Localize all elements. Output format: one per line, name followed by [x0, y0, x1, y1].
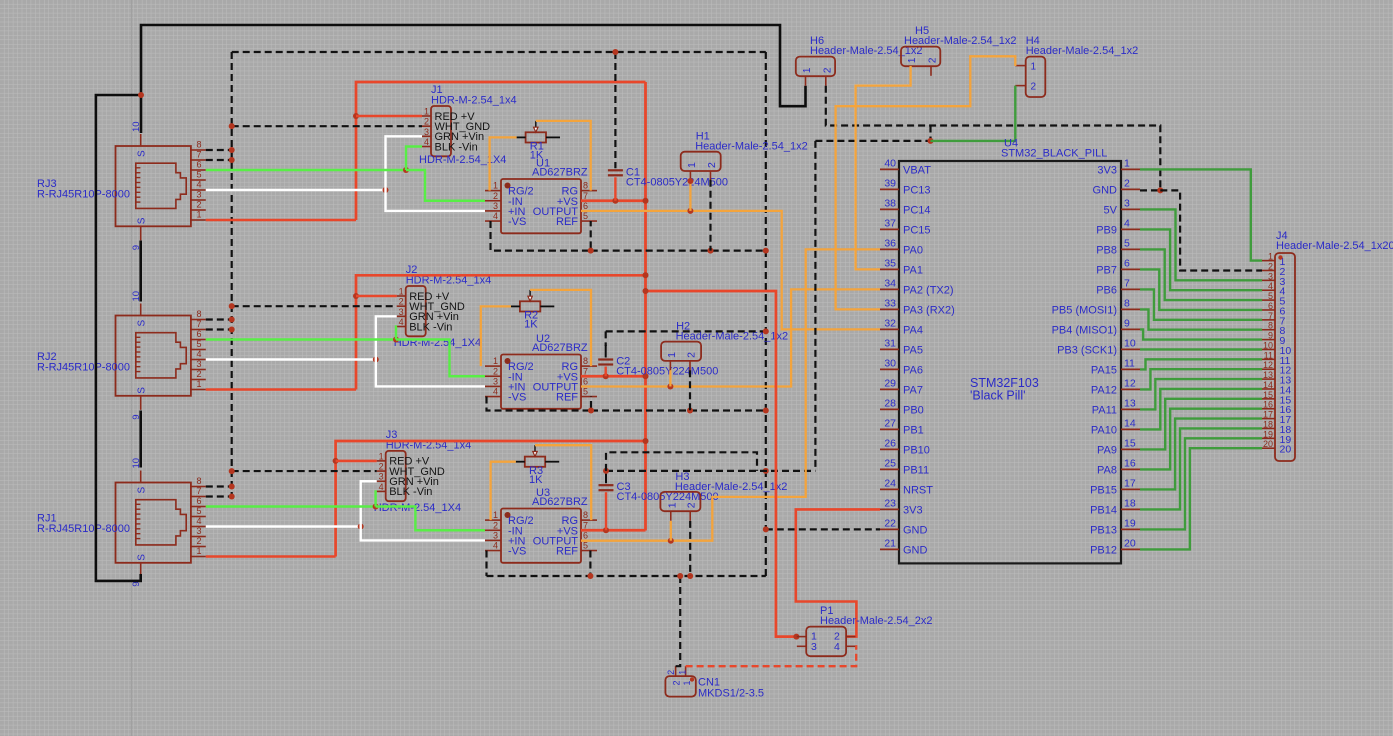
svg-text:5: 5	[583, 211, 588, 221]
header P1 Header-Male-2.54_2x2	[797, 605, 933, 656]
wire green PA15 to J4.11	[1140, 359, 1262, 369]
svg-text:4: 4	[379, 482, 384, 492]
junction red bus ch2	[643, 272, 649, 379]
svg-text:3: 3	[196, 526, 201, 536]
svg-text:9: 9	[1124, 317, 1130, 329]
svg-text:PA7: PA7	[903, 384, 923, 396]
svg-text:4: 4	[1124, 217, 1130, 229]
svg-text:STM32_BLACK_PILL: STM32_BLACK_PILL	[1001, 148, 1107, 160]
svg-text:7: 7	[583, 191, 588, 201]
wire GND dashed REF rail ch2	[591, 409, 766, 411]
wire orange H2 pin1 drop	[669, 370, 671, 386]
wire red to J1 pin1	[356, 115, 422, 118]
svg-text:1: 1	[424, 107, 429, 117]
wire white RJ pin4 ch2	[206, 358, 376, 360]
svg-text:PA9: PA9	[1097, 444, 1117, 456]
svg-text:3V3: 3V3	[1097, 164, 1117, 176]
svg-text:REF: REF	[556, 392, 578, 404]
wire orange OUTPUT1 to PA4	[581, 211, 880, 330]
wire GND dashed C2 rail	[606, 328, 769, 357]
wire GND dashed left bus	[231, 52, 233, 497]
svg-text:18: 18	[1263, 419, 1273, 429]
resistor R3 1K	[516, 445, 559, 486]
svg-text:1: 1	[1031, 62, 1037, 73]
wire orange H4 pin1 to PA3	[836, 56, 1016, 309]
svg-text:1: 1	[666, 502, 678, 508]
wire white ch1 to J1.3 / U1.+IN	[386, 136, 486, 211]
svg-text:PA11: PA11	[1092, 404, 1117, 416]
junction red P1 pin1	[793, 634, 799, 640]
resistor R1 1K	[517, 121, 560, 162]
svg-text:10: 10	[1124, 337, 1136, 349]
wire green PA10 to J4.14	[1140, 389, 1262, 429]
svg-text:BLK -Vin: BLK -Vin	[389, 486, 432, 498]
svg-text:5: 5	[583, 387, 588, 397]
svg-text:33: 33	[884, 297, 896, 309]
svg-text:15: 15	[1124, 437, 1136, 449]
wire GND dashed RJ1 pin8	[206, 484, 235, 490]
wire GND dashed U2 -VS/REF	[487, 397, 592, 411]
svg-text:3: 3	[811, 641, 817, 653]
svg-text:PA4: PA4	[903, 324, 923, 336]
svg-text:5: 5	[196, 169, 201, 179]
svg-text:8: 8	[1124, 297, 1130, 309]
wire red riser+rail ch1	[356, 82, 646, 220]
svg-text:3: 3	[1124, 197, 1130, 209]
svg-text:2: 2	[666, 670, 676, 675]
wire red C2 to +VS	[605, 367, 607, 377]
svg-text:2: 2	[424, 117, 429, 127]
svg-text:CT4-0805Y224M500: CT4-0805Y224M500	[617, 491, 719, 503]
svg-text:8: 8	[583, 181, 588, 191]
wire GND dashed U3 REF drop	[589, 551, 591, 576]
wire red C1 to +VS	[614, 177, 616, 200]
svg-text:40: 40	[884, 157, 896, 169]
wire lime RJ pin6 ch3	[206, 505, 376, 507]
wire orange OUTPUT2 to PA2	[581, 289, 880, 386]
svg-text:9: 9	[1268, 331, 1273, 341]
svg-text:2: 2	[399, 297, 404, 307]
wire green PA12 to J4.12	[1140, 369, 1262, 389]
svg-text:26: 26	[884, 437, 896, 449]
svg-text:6: 6	[1124, 257, 1130, 269]
wire green PB8 to J4.5	[1140, 249, 1262, 300]
svg-text:PB13: PB13	[1090, 524, 1117, 536]
wire red bus to P1 pin1	[646, 291, 797, 637]
wire black RJ2-RJ1 shield	[139, 411, 142, 468]
svg-text:PB15: PB15	[1090, 484, 1117, 496]
wire GND dashed mid rail	[815, 126, 933, 144]
wire green PB12 to J4.20	[1140, 448, 1262, 549]
wire lime RJ pin6 ch2	[206, 338, 396, 340]
svg-text:1: 1	[802, 67, 813, 73]
wire GND dashed H3 pin2	[689, 521, 691, 576]
svg-text:21: 21	[884, 537, 896, 549]
svg-text:13: 13	[1124, 397, 1136, 409]
wire lime ch3 to U3.-IN	[376, 507, 485, 531]
capacitor C3 CT4-0805Y224M500	[599, 481, 719, 503]
svg-text:1: 1	[493, 181, 498, 191]
svg-text:PA5: PA5	[903, 344, 923, 356]
svg-text:R-RJ45R10P-8000: R-RJ45R10P-8000	[37, 523, 130, 535]
wire green PB5 (MOSI1) to J4.8	[1140, 309, 1262, 329]
wire red RJ pin1 ch3	[206, 555, 336, 558]
wire green PB13 to J4.19	[1140, 438, 1262, 529]
svg-text:VBAT: VBAT	[903, 164, 931, 176]
wire green PB6 to J4.7	[1140, 289, 1262, 319]
svg-text:2: 2	[686, 502, 698, 508]
junction orange H1	[687, 208, 693, 214]
svg-text:MKDS1/2-3.5: MKDS1/2-3.5	[698, 688, 764, 700]
wire lime ch2 to J2.4	[395, 327, 398, 340]
svg-text:PB3 (SCK1): PB3 (SCK1)	[1057, 344, 1117, 356]
svg-text:PA8: PA8	[1097, 464, 1117, 476]
svg-text:3: 3	[399, 307, 404, 317]
svg-text:8: 8	[583, 510, 588, 520]
svg-text:4: 4	[493, 211, 498, 221]
wire red +VS U2	[581, 375, 646, 378]
wire GND dashed H1 pin2	[709, 180, 711, 251]
svg-text:S: S	[137, 387, 148, 394]
svg-text:PA6: PA6	[903, 364, 923, 376]
svg-text:8: 8	[583, 356, 588, 366]
wire GND dashed long drop	[814, 141, 816, 471]
svg-text:1: 1	[379, 451, 384, 461]
header J1 HDR-M-2.54_1x4	[419, 84, 517, 166]
wire GND dashed to J4 pin2	[1160, 190, 1262, 270]
svg-text:R-RJ45R10P-8000: R-RJ45R10P-8000	[37, 189, 130, 201]
wire red 3V3 to P1 pin2	[796, 509, 880, 636]
IC U4 STM32_BLACK_PILL	[880, 137, 1140, 563]
svg-text:31: 31	[884, 337, 896, 349]
svg-text:-VS: -VS	[508, 546, 526, 558]
svg-text:7: 7	[583, 366, 588, 376]
header H3 Header-Male-2.54_1x2	[660, 471, 787, 521]
wire white ch2 to J2.3 / U2.+IN	[376, 316, 485, 386]
wire GND dashed C1 lead	[612, 49, 618, 168]
svg-text:1K: 1K	[530, 150, 544, 162]
svg-text:1: 1	[1124, 157, 1130, 169]
svg-text:5: 5	[1124, 237, 1130, 249]
wire green PA8 to J4.16	[1140, 409, 1262, 470]
svg-text:PB10: PB10	[903, 444, 930, 456]
wire green PA9 to J4.15	[1140, 399, 1262, 450]
svg-text:3: 3	[196, 359, 201, 369]
svg-text:7: 7	[196, 486, 201, 496]
junction red J2 pin1	[353, 293, 359, 299]
svg-text:1: 1	[493, 510, 498, 520]
wire GND dashed to J1 pin2	[229, 123, 422, 129]
svg-text:4: 4	[1268, 281, 1273, 291]
svg-text:1: 1	[196, 546, 201, 556]
svg-text:6: 6	[583, 201, 588, 211]
svg-text:1: 1	[907, 57, 918, 63]
svg-text:PB6: PB6	[1096, 284, 1117, 296]
header H5 Header-Male-2.54_1x2	[901, 25, 1017, 76]
junction GND REF ch3	[587, 468, 768, 579]
svg-text:7: 7	[196, 319, 201, 329]
wire white RJ pin4 ch3	[206, 525, 361, 527]
svg-text:PA15: PA15	[1091, 364, 1117, 376]
svg-text:PB8: PB8	[1096, 244, 1117, 256]
svg-text:1: 1	[686, 162, 698, 168]
svg-text:8: 8	[1268, 321, 1273, 331]
svg-text:REF: REF	[556, 546, 578, 558]
svg-text:9: 9	[131, 582, 142, 587]
header H6 Header-Male-2.54_1x2	[796, 35, 923, 86]
wire red main bus vertical	[644, 82, 647, 531]
wire red riser+rail ch3	[336, 441, 646, 557]
svg-text:25: 25	[884, 457, 896, 469]
svg-text:PA2 (TX2): PA2 (TX2)	[903, 284, 954, 296]
svg-text:13: 13	[1263, 370, 1273, 380]
wire GND dashed right bus	[765, 52, 767, 576]
svg-text:29: 29	[884, 377, 896, 389]
svg-text:2: 2	[379, 462, 384, 472]
wire orange R3 wiper to U3 RG	[535, 445, 591, 520]
wire GND dashed bottom rail	[487, 575, 766, 577]
wire GND dashed H2 pin2	[689, 370, 691, 410]
svg-text:REF: REF	[556, 216, 578, 228]
svg-text:AD627BRZ: AD627BRZ	[532, 342, 588, 354]
wire white ch3 to J3.3 / U3.+IN	[361, 481, 485, 540]
junction red J3 pin1	[333, 458, 339, 464]
wire GND dashed C3 upper jog	[606, 452, 757, 471]
header J3 HDR-M-2.54_1x4	[374, 429, 472, 514]
wire orange H1 pin1 drop	[687, 178, 693, 211]
svg-text:6: 6	[1268, 301, 1273, 311]
junction lime ch2	[393, 337, 399, 343]
junction orange H3	[668, 538, 674, 544]
wire orange H5 pin1 to PA1	[856, 66, 911, 269]
svg-text:PB5 (MOSI1): PB5 (MOSI1)	[1052, 304, 1117, 316]
wire lime ch3 to J3.4	[376, 491, 377, 506]
svg-text:Header-Male-2.54_2x2: Header-Male-2.54_2x2	[820, 615, 933, 627]
svg-text:PB11: PB11	[903, 464, 929, 476]
wire lime ch1 to U1.-IN	[406, 170, 485, 201]
wire white RJ pin4 ch1	[206, 189, 386, 191]
svg-text:5: 5	[196, 506, 201, 516]
svg-text:4: 4	[493, 541, 498, 551]
junction red bus ch1	[643, 198, 649, 204]
junction shield top-left	[138, 92, 144, 98]
svg-text:PB7: PB7	[1096, 264, 1117, 276]
wire orange OUTPUT3 to PA0	[581, 249, 880, 540]
svg-text:PA10: PA10	[1091, 424, 1117, 436]
svg-text:2: 2	[493, 520, 498, 530]
wire GND dashed top rail	[232, 51, 766, 53]
svg-text:22: 22	[884, 517, 896, 529]
svg-text:5: 5	[196, 339, 201, 349]
wire black shield left loop	[96, 95, 141, 581]
svg-text:2: 2	[686, 352, 698, 358]
wire orange R1 wiper to U1 RG	[536, 121, 591, 191]
svg-text:30: 30	[884, 357, 896, 369]
svg-text:1: 1	[493, 356, 498, 366]
wire GND dashed RJ1 pin7	[206, 494, 235, 500]
svg-text:PC15: PC15	[903, 224, 931, 236]
svg-text:4: 4	[196, 349, 201, 359]
svg-text:3: 3	[493, 376, 498, 386]
svg-text:12: 12	[1124, 377, 1136, 389]
wire green PB15 to J4.17	[1140, 419, 1262, 490]
svg-text:19: 19	[1124, 517, 1136, 529]
wire orange H3 pin1 drop	[670, 521, 672, 541]
svg-text:7: 7	[583, 520, 588, 530]
svg-text:5: 5	[583, 541, 588, 551]
svg-text:2: 2	[196, 369, 201, 379]
junction white ch3	[358, 524, 364, 530]
wire green PB4 (MISO1) to J4.9	[1140, 329, 1262, 339]
svg-text:3V3: 3V3	[903, 504, 923, 516]
wire green 5V to J4.3	[1140, 209, 1262, 280]
svg-text:2: 2	[493, 191, 498, 201]
capacitor C1 CT4-0805Y224M500	[608, 166, 728, 188]
header H4 Header-Male-2.54_1x2	[1015, 35, 1138, 97]
wire red RJ pin1 ch1	[206, 219, 356, 222]
svg-text:S: S	[137, 320, 148, 327]
svg-text:15: 15	[1263, 390, 1273, 400]
wire red RJ pin1 ch2	[206, 388, 356, 391]
svg-text:7: 7	[1124, 277, 1130, 289]
svg-text:16: 16	[1124, 457, 1136, 469]
junction white ch1	[383, 187, 389, 193]
connector RJ2 R-RJ45R10P-8000	[37, 291, 206, 420]
svg-text:36: 36	[884, 237, 896, 249]
svg-text:37: 37	[884, 217, 896, 229]
svg-text:HDR-M-2.54_1x4: HDR-M-2.54_1x4	[431, 95, 517, 107]
svg-text:-VS: -VS	[508, 216, 526, 228]
svg-text:3: 3	[493, 530, 498, 540]
svg-text:10: 10	[1263, 340, 1273, 350]
svg-text:PA0: PA0	[903, 244, 923, 256]
svg-text:R-RJ45R10P-8000: R-RJ45R10P-8000	[37, 362, 130, 374]
svg-text:6: 6	[196, 159, 201, 169]
header J4 Header-Male-2.54_1x20	[1262, 230, 1393, 461]
svg-text:Header-Male-2.54_1x2: Header-Male-2.54_1x2	[675, 481, 788, 493]
svg-text:14: 14	[1263, 380, 1273, 390]
svg-text:11: 11	[1264, 350, 1273, 360]
wire orange R2 left to U2 RG/2	[481, 306, 511, 366]
junction red C3	[603, 527, 609, 533]
svg-text:2: 2	[671, 680, 681, 685]
svg-text:2: 2	[1268, 261, 1273, 271]
wire green PB14 to J4.18	[1140, 428, 1262, 509]
connector RJ1 R-RJ45R10P-8000	[37, 458, 206, 587]
wire GND dashed C3 rail	[603, 468, 815, 483]
svg-text:20: 20	[1124, 537, 1136, 549]
wire lime ch2 to U2.-IN	[396, 340, 485, 377]
svg-text:8: 8	[196, 139, 201, 149]
svg-text:8: 8	[196, 309, 201, 319]
svg-text:BLK -Vin: BLK -Vin	[435, 141, 478, 153]
svg-text:GND: GND	[903, 524, 928, 536]
svg-text:17: 17	[1263, 410, 1273, 420]
junction red bus ch3	[643, 438, 649, 444]
wire red riser+rail ch2	[356, 275, 646, 389]
terminal CN1 MKDS1/2-3.5	[665, 666, 764, 699]
wire GND dashed to J3 pin2	[229, 468, 377, 474]
svg-text:-VS: -VS	[508, 392, 526, 404]
connector RJ3 R-RJ45R10P-8000	[37, 121, 206, 250]
wire GND dashed RJ2 pin7	[206, 327, 235, 333]
svg-text:GND: GND	[1093, 184, 1118, 196]
svg-text:2: 2	[493, 366, 498, 376]
svg-text:4: 4	[493, 387, 498, 397]
junction red J1 pin1	[353, 113, 359, 119]
svg-text:3: 3	[1268, 271, 1273, 281]
svg-text:PC13: PC13	[903, 184, 931, 196]
svg-text:S: S	[137, 487, 148, 494]
svg-text:2: 2	[196, 199, 201, 209]
svg-text:Header-Male-2.54_1x2: Header-Male-2.54_1x2	[695, 141, 808, 153]
svg-text:16: 16	[1263, 400, 1273, 410]
svg-text:7: 7	[1268, 311, 1273, 321]
wire lime RJ pin6 ch1	[206, 169, 406, 171]
svg-text:7: 7	[196, 149, 201, 159]
svg-text:5: 5	[1268, 291, 1273, 301]
svg-text:CT4-0805Y224M500: CT4-0805Y224M500	[616, 366, 718, 378]
wire GND dashed H6 pin2 run	[826, 86, 1161, 191]
wire GND dashed U3 -VS drop	[485, 551, 487, 576]
capacitor C2 CT4-0805Y224M500	[598, 356, 718, 378]
svg-text:6: 6	[196, 496, 201, 506]
op-amp U2 AD627BRZ	[485, 333, 597, 409]
wire green PA11 to J4.13	[1140, 379, 1262, 409]
svg-text:2: 2	[928, 57, 939, 63]
wire GND dashed RJ3 pin8	[206, 147, 235, 153]
svg-text:AD627BRZ: AD627BRZ	[532, 167, 588, 179]
junction GND REF ch2	[588, 408, 769, 414]
svg-text:3: 3	[379, 472, 384, 482]
wire GND dashed to STM32 GND2	[1140, 187, 1163, 193]
wire black RJ3-RJ2 shield	[139, 241, 142, 302]
svg-text:6: 6	[583, 530, 588, 540]
header H2 Header-Male-2.54_1x2	[661, 321, 788, 371]
svg-text:4: 4	[424, 137, 429, 147]
svg-text:BLK -Vin: BLK -Vin	[409, 321, 452, 333]
header J2 HDR-M-2.54_1x4	[394, 264, 492, 349]
junction orange H2	[667, 384, 673, 390]
svg-text:PB12: PB12	[1090, 544, 1117, 556]
wire red dashed CN1 to P1 pin4	[686, 646, 857, 666]
wire green 3V3 to J4.1	[1140, 169, 1262, 260]
resistor R2 1K	[511, 290, 554, 331]
svg-text:3: 3	[493, 201, 498, 211]
svg-text:CT4-0805Y224M500: CT4-0805Y224M500	[626, 176, 728, 188]
svg-text:38: 38	[884, 197, 896, 209]
svg-text:HDR-M-2.54_1X4: HDR-M-2.54_1X4	[419, 154, 506, 166]
svg-text:1: 1	[677, 670, 687, 675]
svg-text:34: 34	[884, 277, 896, 289]
svg-text:Header-Male-2.54_1x20: Header-Male-2.54_1x20	[1276, 240, 1393, 252]
svg-text:1: 1	[666, 352, 678, 358]
svg-text:3: 3	[196, 189, 201, 199]
wire green PB9 to J4.4	[1140, 229, 1262, 290]
wire lime ch1 to J1.4	[406, 147, 422, 170]
svg-text:4: 4	[834, 641, 840, 653]
svg-text:12: 12	[1263, 360, 1273, 370]
svg-text:PC14: PC14	[903, 204, 931, 216]
svg-text:3: 3	[424, 127, 429, 137]
svg-text:S: S	[137, 217, 148, 224]
header H1 Header-Male-2.54_1x2	[681, 131, 808, 181]
junction lime ch1	[403, 167, 409, 173]
svg-text:Header-Male-2.54_1x2: Header-Male-2.54_1x2	[1026, 45, 1139, 57]
svg-text:4: 4	[196, 516, 201, 526]
svg-text:19: 19	[1263, 429, 1273, 439]
svg-text:14: 14	[1124, 417, 1136, 429]
